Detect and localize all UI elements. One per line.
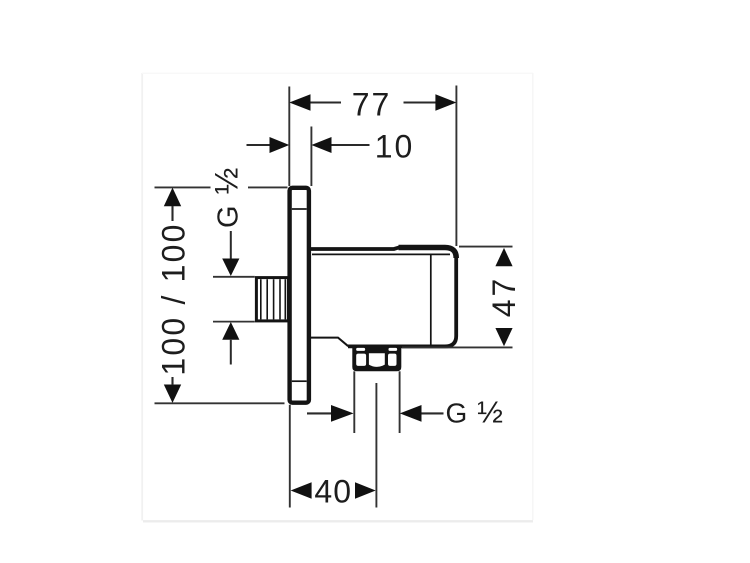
wall plate (escutcheon, side view) bbox=[290, 188, 309, 403]
label G 1/2 (inlet, rotated) bbox=[209, 166, 245, 228]
svg-text:10: 10 bbox=[375, 129, 415, 165]
center line of outlet bbox=[375, 383, 377, 508]
dimension 40 (bottom) bbox=[290, 405, 376, 510]
svg-text:47: 47 bbox=[486, 276, 522, 318]
dimension 10 bbox=[247, 127, 415, 187]
container frame bbox=[142, 73, 533, 521]
knurled G1/2 inlet connector bbox=[256, 278, 288, 321]
svg-text:G ½: G ½ bbox=[446, 394, 504, 429]
dimension 77 bbox=[289, 86, 456, 247]
outlet thread extension lines bbox=[354, 371, 399, 433]
svg-text:77: 77 bbox=[352, 87, 392, 123]
dimension G 1/2 (outlet) bbox=[307, 394, 504, 429]
dimension 100 / 100 (left, rotated) bbox=[155, 187, 288, 403]
svg-text:G ½: G ½ bbox=[209, 166, 245, 228]
dimension 47 (right, rotated) bbox=[402, 247, 522, 348]
svg-text:100 / 100: 100 / 100 bbox=[156, 222, 192, 375]
valve body bbox=[311, 248, 456, 347]
hex outlet nut bbox=[352, 346, 401, 371]
dimension G1/2 thread height bbox=[213, 231, 255, 365]
svg-text:40: 40 bbox=[314, 473, 352, 509]
